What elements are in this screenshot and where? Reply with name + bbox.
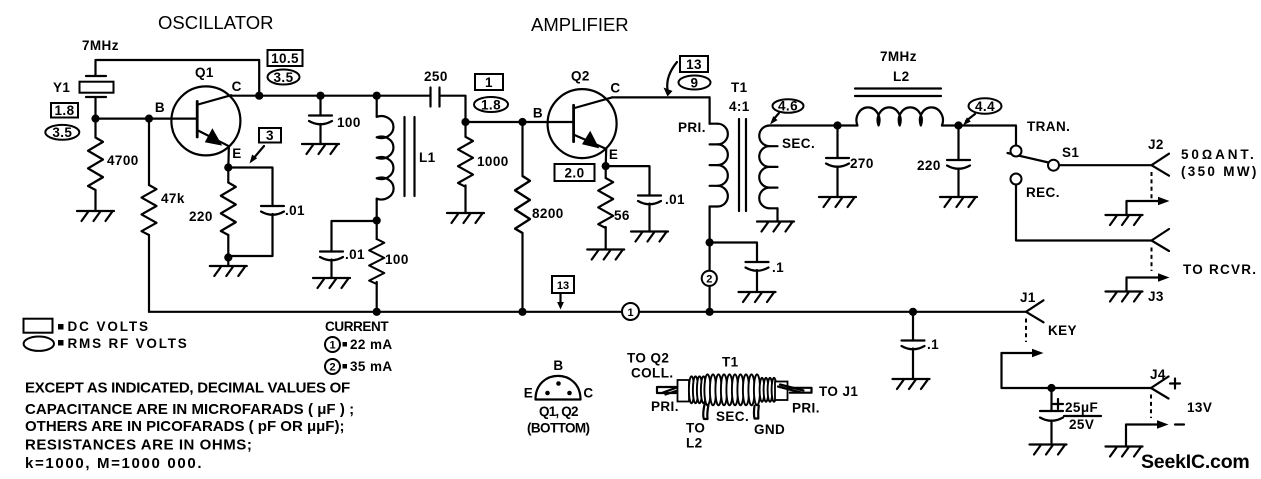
svg-text:k=1000, M=1000 000.: k=1000, M=1000 000.	[25, 455, 203, 472]
svg-text:47k: 47k	[161, 191, 185, 206]
svg-text:1.8: 1.8	[481, 98, 501, 113]
svg-text:EXCEPT AS INDICATED, DECIMAL V: EXCEPT AS INDICATED, DECIMAL VALUES OF	[25, 380, 350, 397]
svg-text:.01: .01	[285, 203, 305, 218]
svg-text:DC VOLTS: DC VOLTS	[68, 319, 150, 334]
svg-text:CURRENT: CURRENT	[325, 319, 389, 334]
svg-text:100: 100	[385, 252, 409, 267]
svg-text:OTHERS ARE IN PICOFARADS ( pF: OTHERS ARE IN PICOFARADS ( pF OR μμF);	[25, 418, 344, 435]
svg-text:TO Q2: TO Q2	[627, 351, 669, 366]
svg-text:9: 9	[691, 76, 699, 91]
svg-text:1000: 1000	[477, 154, 509, 169]
svg-text:E: E	[232, 146, 241, 161]
svg-text:Y1: Y1	[53, 80, 70, 95]
svg-text:C: C	[232, 79, 242, 94]
svg-text:PRI.: PRI.	[792, 401, 820, 416]
svg-text:(BOTTOM): (BOTTOM)	[527, 421, 590, 436]
svg-text:TO RCVR.: TO RCVR.	[1183, 262, 1257, 277]
svg-text:13: 13	[557, 280, 569, 292]
svg-text:13V: 13V	[1187, 400, 1212, 415]
svg-text:SEC.: SEC.	[716, 409, 749, 424]
svg-text:220: 220	[917, 158, 941, 173]
svg-text:Q2: Q2	[571, 69, 590, 84]
svg-text:C: C	[610, 81, 620, 96]
svg-text:B: B	[533, 106, 543, 121]
svg-text:J1: J1	[1020, 290, 1036, 305]
svg-text:100: 100	[337, 115, 361, 130]
svg-text:10.5: 10.5	[271, 51, 299, 66]
svg-text:.01: .01	[345, 247, 365, 262]
svg-text:4.6: 4.6	[778, 99, 798, 114]
svg-text:L2: L2	[686, 436, 703, 451]
svg-text:3.5: 3.5	[52, 125, 72, 140]
svg-text:.1: .1	[772, 260, 784, 275]
svg-text:GND: GND	[754, 422, 785, 437]
svg-text:T1: T1	[722, 355, 739, 370]
svg-text:E: E	[609, 147, 618, 162]
svg-text:13: 13	[686, 57, 702, 72]
svg-text:250: 250	[424, 69, 448, 84]
svg-text:(350 MW): (350 MW)	[1181, 164, 1259, 179]
svg-text:RMS RF VOLTS: RMS RF VOLTS	[68, 336, 189, 351]
svg-text:S1: S1	[1062, 145, 1079, 160]
svg-text:B: B	[155, 100, 165, 115]
svg-text:270: 270	[850, 156, 874, 171]
svg-text:L1: L1	[419, 150, 436, 165]
svg-text:J2: J2	[1148, 137, 1164, 152]
svg-text:SeekIC.com: SeekIC.com	[1141, 451, 1250, 473]
svg-text:PRI.: PRI.	[678, 120, 706, 135]
svg-text:1.8: 1.8	[55, 103, 75, 118]
svg-text:J4: J4	[1150, 367, 1166, 382]
svg-text:KEY: KEY	[1048, 323, 1077, 338]
svg-text:22 mA: 22 mA	[350, 337, 393, 352]
svg-text:7MHz: 7MHz	[82, 38, 119, 53]
svg-text:TO J1: TO J1	[819, 384, 858, 399]
svg-text:AMPLIFIER: AMPLIFIER	[531, 14, 629, 35]
svg-text:SEC.: SEC.	[782, 136, 815, 151]
svg-text:COLL.: COLL.	[631, 366, 674, 381]
svg-text:56: 56	[614, 208, 630, 223]
svg-text:4700: 4700	[107, 153, 139, 168]
svg-text:8200: 8200	[532, 206, 564, 221]
svg-text:PRI.: PRI.	[651, 399, 679, 414]
svg-text:CAPACITANCE ARE IN MICROFARADS: CAPACITANCE ARE IN MICROFARADS ( μF ) ;	[25, 401, 354, 418]
svg-text:1: 1	[627, 307, 633, 319]
svg-text:25V: 25V	[1069, 417, 1094, 432]
svg-text:2.0: 2.0	[565, 166, 585, 181]
svg-text:TRAN.: TRAN.	[1027, 119, 1070, 134]
svg-text:2: 2	[706, 274, 712, 286]
svg-text:Q1, Q2: Q1, Q2	[539, 404, 578, 419]
svg-text:Q1: Q1	[195, 65, 214, 80]
svg-text:50ΩANT.: 50ΩANT.	[1181, 147, 1257, 162]
svg-text:4.4: 4.4	[975, 99, 995, 114]
svg-text:.01: .01	[665, 192, 685, 207]
svg-text:L2: L2	[893, 69, 910, 84]
svg-text:3: 3	[266, 128, 274, 143]
svg-text:RESISTANCES ARE IN OHMS;: RESISTANCES ARE IN OHMS;	[25, 437, 252, 454]
svg-text:25μF: 25μF	[1065, 400, 1098, 415]
svg-text:35 mA: 35 mA	[350, 359, 393, 374]
svg-text:REC.: REC.	[1026, 185, 1060, 200]
svg-text:1: 1	[485, 75, 493, 90]
svg-text:220: 220	[189, 209, 213, 224]
svg-text:OSCILLATOR: OSCILLATOR	[158, 12, 274, 33]
svg-text:T1: T1	[731, 80, 748, 95]
svg-text:TO: TO	[686, 421, 705, 436]
svg-text:.1: .1	[927, 337, 939, 352]
svg-text:C: C	[583, 386, 593, 401]
svg-text:4:1: 4:1	[729, 99, 750, 114]
svg-text:1: 1	[329, 340, 335, 352]
svg-text:B: B	[553, 358, 563, 373]
svg-text:2: 2	[329, 362, 335, 374]
svg-text:E: E	[524, 386, 533, 401]
svg-text:7MHz: 7MHz	[880, 49, 917, 64]
svg-text:J3: J3	[1148, 289, 1164, 304]
svg-text:3.5: 3.5	[274, 70, 294, 85]
